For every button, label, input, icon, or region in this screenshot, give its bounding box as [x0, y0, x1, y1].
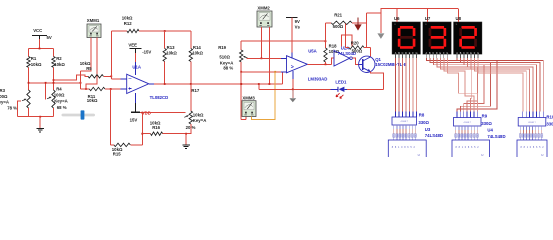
- svg-text:U8: U8: [456, 16, 462, 21]
- svg-text:R19: R19: [218, 45, 226, 50]
- wire XMM2 left pin: [260, 27, 262, 58]
- resistor R16: [142, 120, 186, 135]
- svg-text:R16: R16: [152, 125, 160, 130]
- svg-text:R1: R1: [31, 56, 37, 61]
- svg-text:-15V: -15V: [142, 49, 151, 54]
- wire U1A output row: [154, 83, 283, 85]
- svg-text:R8: R8: [419, 112, 425, 117]
- svg-text:510Ω: 510Ω: [219, 55, 230, 60]
- pins R10 to U5 chip: [519, 126, 543, 140]
- svg-text:74LS48D: 74LS48D: [487, 134, 505, 139]
- junction R5 feedback node: [110, 75, 112, 77]
- svg-text:XMM1: XMM1: [87, 18, 100, 23]
- svg-text:330Ω: 330Ω: [481, 121, 492, 126]
- svg-text:500Ω: 500Ω: [333, 24, 344, 29]
- wire R20 stub: [345, 24, 347, 48]
- svg-text:10kΩ: 10kΩ: [122, 15, 133, 20]
- junction R15 node: [110, 88, 112, 90]
- wire R2 branch to R5: [54, 75, 89, 80]
- IC U3 74LS48D: [388, 127, 443, 158]
- junction lower row: [240, 71, 242, 73]
- svg-text:R9: R9: [482, 113, 488, 118]
- svg-text:LM393AD: LM393AD: [308, 77, 328, 82]
- potentiometer R17: [184, 88, 206, 130]
- junction out-R14R17: [190, 83, 192, 85]
- svg-text:68 %: 68 %: [57, 105, 67, 110]
- svg-text:11: 11: [394, 24, 396, 26]
- junction U5A gnd-LED row: [292, 88, 294, 90]
- resistor R1: [27, 56, 42, 68]
- svg-text:100Ω: 100Ω: [54, 92, 65, 97]
- svg-text:10kΩ: 10kΩ: [54, 62, 65, 67]
- junction out-vert: [240, 83, 242, 85]
- IC U5 74LS48D: [517, 140, 547, 158]
- svg-text:R17: R17: [191, 88, 199, 93]
- svg-text:11: 11: [456, 24, 458, 26]
- wire to U2A input: [332, 58, 335, 64]
- svg-text:78 %: 78 %: [7, 106, 17, 111]
- wire R12 left lead: [111, 30, 127, 32]
- svg-text:10kΩ: 10kΩ: [192, 51, 203, 56]
- svg-text:100Ω: 100Ω: [0, 94, 8, 99]
- power Vs 9V: [286, 17, 300, 29]
- svg-text:R12: R12: [124, 21, 132, 26]
- wire Vs stem: [291, 17, 293, 58]
- 7-segment display U7 showing 3: [423, 9, 452, 58]
- svg-text:U5A: U5A: [308, 48, 317, 53]
- net arrow maroon: [354, 18, 361, 31]
- IC U4 74LS48D: [452, 128, 506, 158]
- junction LED row left: [258, 83, 260, 85]
- 7-segment display U6 showing 0: [392, 9, 421, 58]
- svg-text:TL082CD: TL082CD: [150, 95, 169, 100]
- wire bottom rail: [18, 116, 54, 118]
- svg-text:88 %: 88 %: [223, 65, 233, 70]
- resistor R12: [122, 15, 139, 32]
- wire U5A lower input row: [241, 71, 281, 73]
- junction R16 left: [141, 133, 143, 135]
- junction bridge right: [80, 82, 82, 84]
- wire XMM1 right pin: [86, 38, 97, 90]
- potentiometer R4: [47, 87, 68, 111]
- wire LED to Q1: [347, 88, 384, 90]
- resistor pack R9 330ohm: [454, 113, 493, 126]
- resistor R18: [324, 23, 340, 65]
- pins R8 to U3: [393, 125, 417, 140]
- wire R20 to Q1 collector: [370, 48, 372, 57]
- wire noninv row: [81, 88, 90, 90]
- svg-text:R15: R15: [113, 151, 121, 156]
- wire R11 to opamp: [105, 88, 121, 90]
- svg-text:U3: U3: [425, 127, 431, 132]
- wire U2A power: [342, 35, 352, 47]
- transistor Q1: [359, 56, 407, 72]
- wire VCC stem: [39, 39, 41, 49]
- wire R15 left vertical: [110, 89, 112, 145]
- wire Q1 emitter down: [371, 72, 384, 90]
- resistor R20: [346, 40, 371, 53]
- wire R1 to R3: [28, 67, 30, 90]
- net arrow gray head: [377, 9, 384, 39]
- wire R2 to R4: [53, 67, 55, 90]
- resistor pack R10 330ohm: [518, 115, 553, 127]
- wire bundle U8 to R10: [457, 58, 543, 118]
- wire R17 bottom: [186, 124, 191, 134]
- wire rail to displays: [366, 9, 458, 13]
- diode LED1: [331, 79, 348, 98]
- junction XMM2-out row: [269, 83, 271, 85]
- svg-text:U: U: [541, 153, 543, 157]
- power VEE -15V: [128, 42, 151, 62]
- ground: [36, 128, 44, 132]
- svg-text:500Ω: 500Ω: [352, 49, 363, 54]
- wire XMM3 left pin: [241, 117, 246, 120]
- wire R19 top lead: [240, 41, 242, 50]
- wire LED row: [259, 88, 331, 90]
- wire U2A out to Q1 base: [352, 58, 358, 64]
- junction XMM1-R11: [85, 88, 87, 90]
- resistor R2: [52, 56, 66, 68]
- svg-text:R13: R13: [167, 45, 175, 50]
- svg-text:VEE: VEE: [128, 42, 137, 47]
- svg-text:LED1: LED1: [335, 79, 347, 84]
- junction VCC rail: [39, 48, 41, 50]
- wire feedback vertical: [110, 31, 112, 79]
- svg-text:>: >: [291, 64, 294, 70]
- probe arrow gray: [289, 89, 296, 102]
- junction R2-R5 branch: [53, 79, 55, 81]
- svg-text:R4: R4: [56, 87, 62, 92]
- svg-text:Vs: Vs: [295, 25, 301, 30]
- junction bottom rail: [39, 116, 41, 118]
- wire R3 bottom lead: [28, 108, 30, 117]
- junction out-R13: [164, 83, 166, 85]
- comparator U5A LM393AD: [281, 48, 327, 81]
- svg-text:Key=A: Key=A: [193, 118, 207, 123]
- ground right: [182, 145, 190, 149]
- multimeter XMM3: [242, 95, 256, 116]
- svg-text:11: 11: [425, 24, 427, 26]
- svg-text:R2: R2: [56, 56, 62, 61]
- wire R4 wiper to node: [45, 83, 48, 99]
- resistor R14: [189, 31, 203, 84]
- multimeter XMM1: [87, 18, 101, 38]
- svg-text:U1A: U1A: [132, 65, 141, 70]
- svg-text:10kΩ: 10kΩ: [193, 112, 204, 117]
- wire U5A gnd pin: [292, 79, 294, 89]
- wire bridge row: [29, 82, 81, 84]
- wire R17 top lead: [190, 84, 192, 111]
- svg-text:U4: U4: [487, 128, 493, 133]
- junction mid rail R18: [325, 40, 327, 42]
- svg-text:15V: 15V: [130, 117, 138, 122]
- resistor pack R8 330ohm: [392, 112, 430, 125]
- junction XMM2-wiper row: [261, 57, 263, 59]
- op-amp U1A: [121, 62, 169, 103]
- svg-text:R14: R14: [193, 45, 201, 50]
- svg-text:U6: U6: [394, 16, 400, 21]
- svg-text:R18: R18: [329, 44, 337, 49]
- svg-text:4116R ?: 4116R ?: [401, 121, 409, 123]
- wire mid rail: [241, 40, 325, 42]
- wire R4 bottom lead: [53, 108, 55, 117]
- junction R16 right-ground: [185, 133, 187, 135]
- svg-text:4116R ?: 4116R ?: [528, 122, 536, 124]
- wire R12 right rail: [139, 30, 191, 32]
- wire VCC rail: [29, 48, 54, 50]
- wire ground stem right: [185, 134, 187, 145]
- potentiometer R19: [218, 45, 247, 70]
- multimeter XMM2: [257, 5, 272, 27]
- junction bridge R2: [53, 82, 55, 84]
- junction out row R19: [240, 83, 242, 85]
- svg-text:74LS48D: 74LS48D: [425, 133, 443, 138]
- resistor R15: [111, 143, 143, 156]
- junction bridge R4wiper: [45, 82, 47, 84]
- wire XMM1 left pin: [81, 38, 92, 72]
- svg-text:Key=A: Key=A: [0, 100, 9, 105]
- wire R21 right vertical: [365, 13, 367, 48]
- wire bundle U7 to R9: [426, 58, 497, 118]
- wire bundle U6 to R8: [396, 58, 417, 117]
- wire LED row left vertical: [258, 84, 260, 89]
- wire R1 top lead: [28, 49, 30, 57]
- wire R15R16 node vertical: [141, 113, 143, 145]
- wire inv input: [111, 78, 120, 80]
- wire out riser to U5A: [281, 72, 283, 84]
- 7-segment display U8 showing 2: [454, 9, 483, 58]
- svg-text:9V: 9V: [295, 19, 300, 24]
- svg-text:VCC: VCC: [33, 28, 42, 33]
- svg-text:U: U: [481, 153, 483, 157]
- svg-text:330Ω: 330Ω: [418, 120, 429, 125]
- power VCC 5V: [32, 28, 52, 40]
- svg-text:R20: R20: [351, 40, 359, 45]
- resistor R11: [87, 87, 105, 103]
- svg-text:5V: 5V: [47, 35, 52, 40]
- wire XMM2 right pin: [268, 27, 270, 84]
- svg-text:XMM2: XMM2: [257, 5, 270, 10]
- svg-text:4116R ?: 4116R ?: [464, 122, 472, 124]
- resistor R13: [163, 31, 177, 84]
- svg-text:330Ω: 330Ω: [546, 122, 553, 127]
- junction VDD-R15R16: [141, 112, 143, 114]
- svg-text:U: U: [418, 153, 420, 157]
- svg-text:Key=A: Key=A: [54, 98, 67, 103]
- junction R13 top: [164, 30, 166, 32]
- svg-text:U7: U7: [425, 16, 431, 21]
- inverter U2A 74LS04D: [334, 46, 356, 66]
- wire VDD to R17 wiper: [140, 112, 186, 114]
- junction orange-noninv: [274, 71, 276, 73]
- wire U5A out: [307, 63, 331, 65]
- resistor R21: [326, 13, 367, 29]
- wire bridge to R11 vertical: [80, 71, 82, 89]
- wire R5 to opamp inv input: [103, 75, 111, 77]
- wire XMM3 right pin orange: [252, 72, 276, 120]
- power VDD 15V: [130, 103, 151, 122]
- junction bridge R1: [28, 82, 30, 84]
- slider control R4: [62, 110, 96, 119]
- junction R18 bottom: [325, 63, 327, 65]
- wire ground stem: [39, 117, 41, 128]
- potentiometer R3: [0, 88, 30, 111]
- wire R19 wiper row: [247, 57, 282, 59]
- svg-text:10kΩ: 10kΩ: [31, 62, 42, 67]
- wire R2 top lead: [53, 49, 55, 57]
- svg-text:R10: R10: [546, 115, 553, 120]
- svg-text:10kΩ: 10kΩ: [87, 98, 98, 103]
- wire R19 bottom to XMM3: [240, 62, 242, 119]
- resistor R5: [80, 61, 104, 78]
- svg-text:10kΩ: 10kΩ: [166, 51, 177, 56]
- svg-text:R5: R5: [86, 66, 92, 71]
- svg-text:XMM3: XMM3: [242, 95, 255, 100]
- wire R3 wiper: [18, 101, 22, 117]
- svg-text:R21: R21: [334, 13, 342, 18]
- svg-text:R3: R3: [0, 88, 6, 93]
- pins R9 to U4: [455, 126, 479, 140]
